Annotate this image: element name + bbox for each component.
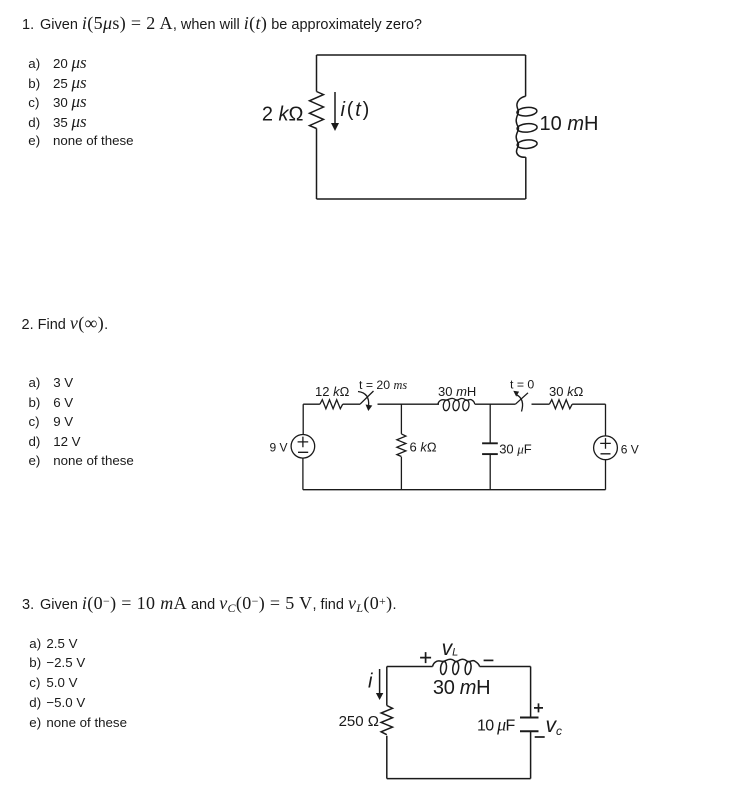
plus sign (vL) [420,652,431,663]
wire top right [480,666,531,668]
svg-text:vL: vL [442,637,459,660]
circuit 2 [255,370,650,500]
minus sign (vC) [535,736,545,738]
svg-text:i: i [368,671,373,693]
left wire below source [302,458,304,490]
svg-text:30 kΩ: 30 kΩ [549,384,584,399]
wire left upper [386,667,388,706]
plus sign (vC) [534,703,543,712]
right wire below source [605,460,607,490]
wire left lower [316,128,318,199]
inductor 30 mH [438,398,475,404]
svg-text:30 mH: 30 mH [433,677,490,699]
wire right upper [530,667,532,718]
right source 6V circle [594,436,618,460]
cap branch wire lower [489,454,491,490]
wire right lower [530,731,532,778]
svg-text:9 V: 9 V [269,441,287,455]
capacitor 10 μF [520,717,539,719]
svg-text:30 mH: 30 mH [438,384,476,399]
svg-text:vc: vc [546,714,563,738]
left wire above source [302,404,304,434]
wire switch to inductor (through node) [378,403,440,405]
svg-text:6 V: 6 V [621,443,639,457]
resistor 250 Ω [381,706,392,735]
svg-text:i(t): i(t) [341,99,372,121]
switch t=0 arc arrow [517,395,523,412]
current arrow i(t) [334,92,336,124]
svg-text:t = 20 ms: t = 20 ms [359,378,407,392]
switch t=20ms blade [360,391,374,404]
6 kΩ branch wire lower [400,457,402,490]
6 kΩ branch wire upper [400,404,402,434]
wire bottom [317,198,526,200]
svg-text:10 μF: 10 μF [477,714,516,734]
wire left upper [316,55,318,92]
wire top [317,54,526,56]
capacitor 30 μF [482,442,498,444]
wire to right corner [572,403,605,405]
wire right lower [525,157,527,199]
svg-text:30 μF: 30 μF [499,441,532,456]
wire switch2 to resistor [532,403,550,405]
resistor 30 kΩ [549,400,572,409]
current arrow i [379,669,381,694]
svg-text:250 Ω: 250 Ω [339,713,379,730]
wire right upper [525,55,527,96]
left source 9V circle [291,435,315,459]
wire top left [387,666,433,668]
switch t=0 blade [515,393,528,404]
svg-text:10 mH: 10 mH [540,113,599,135]
wire inductor to switch2 (through node) [475,403,516,405]
resistor 6 kΩ [397,434,406,457]
wire to switch [343,403,360,405]
wire bottom [387,778,531,780]
wire left lower [386,736,388,779]
switch t=20ms arc arrow [358,392,369,407]
cap branch wire upper [489,404,491,443]
circuit 1 [260,48,610,210]
svg-text:t = 0: t = 0 [510,378,534,392]
inductor 30 mH [433,659,480,666]
bottom rail [303,489,606,491]
inductor L1 10 mH [516,96,526,157]
svg-text:2 kΩ: 2 kΩ [262,104,304,126]
resistor 12 kΩ [320,400,343,409]
minus sign (vL) [484,659,494,661]
right wire down to source [605,404,607,436]
resistor R1 2 kΩ [310,92,324,129]
svg-text:12 kΩ: 12 kΩ [315,384,350,399]
wire top left [303,403,320,405]
circuit 3 [330,630,570,790]
svg-text:6 kΩ: 6 kΩ [410,439,437,454]
